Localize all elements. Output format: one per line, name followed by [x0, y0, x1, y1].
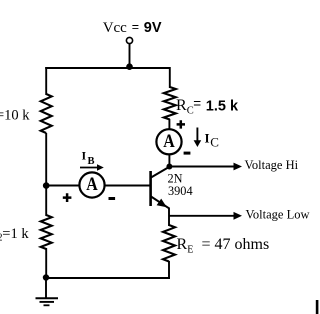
current arrow IB [80, 164, 104, 170]
svg-text:1.5 k: 1.5 k [206, 98, 239, 114]
wire ammeter A2 to RC [168, 119, 170, 130]
svg-text:A: A [86, 175, 98, 195]
ground [36, 298, 59, 305]
transistor Q1 2N3904 [151, 167, 170, 209]
wire emitter down [168, 208, 170, 227]
Vcc terminal circle [126, 37, 132, 43]
ammeter A2 (collector current) [156, 129, 181, 154]
svg-text:= 47 ohms: = 47 ohms [202, 236, 270, 253]
wire ammeter A1 to base [105, 185, 150, 187]
svg-text:9V: 9V [144, 20, 162, 36]
svg-text:R: R [176, 97, 187, 114]
svg-text:R: R [177, 236, 188, 253]
stray mark bottom right [316, 300, 319, 314]
wire RE to bottom rail [168, 261, 170, 278]
label Vcc = 9V [103, 20, 162, 36]
output Voltage Hi [169, 158, 298, 172]
svg-text:I: I [205, 131, 210, 146]
svg-text:=10 k: =10 k [0, 108, 30, 124]
label RC = 1.5 k [176, 96, 239, 117]
svg-text:Voltage Hi: Voltage Hi [245, 158, 299, 172]
node collector junction [166, 164, 172, 170]
node base divider junction [43, 182, 50, 189]
wire Vcc stub [129, 44, 131, 68]
svg-text:C: C [210, 134, 219, 149]
polarity minus A2 [184, 152, 191, 155]
polarity plus A2 [177, 120, 185, 128]
node ground junction [43, 274, 49, 280]
label RB2 = 1 k (clipped) [0, 226, 29, 244]
resistor RB1 [41, 94, 52, 133]
svg-text:=1 k: =1 k [2, 226, 29, 242]
svg-text:A: A [163, 132, 175, 152]
label 2N 3904 [168, 171, 193, 198]
svg-text:I: I [82, 149, 87, 163]
svg-text:=: = [193, 96, 201, 111]
svg-text:=: = [132, 20, 139, 34]
label RE = 47 ohms [177, 236, 270, 256]
wire left rail middle [45, 133, 47, 216]
svg-text:Vcc: Vcc [103, 20, 127, 36]
wire junction to ammeter A1 [46, 185, 79, 187]
wire left rail upper [45, 67, 47, 95]
svg-text:B: B [88, 156, 95, 167]
svg-text:E: E [187, 245, 193, 256]
svg-text:Voltage Low: Voltage Low [246, 208, 310, 222]
wire RC to top rail [169, 67, 171, 88]
label IB [82, 149, 95, 168]
current arrow IC [194, 128, 202, 148]
resistor RC [164, 87, 176, 120]
polarity plus A1 [63, 193, 72, 202]
node Vcc junction [126, 63, 133, 70]
resistor RB2 [41, 215, 52, 249]
ammeter A1 (base current) [79, 172, 104, 197]
polarity minus A1 [109, 197, 116, 200]
resistor RE [163, 225, 175, 262]
output Voltage Low [169, 208, 310, 222]
wire top rail [45, 67, 170, 69]
wire left rail lower [45, 248, 47, 278]
wire bottom rail [45, 277, 170, 279]
wire collector to ammeter A2 [168, 154, 170, 167]
wire ground stub [45, 278, 47, 298]
label IC [205, 131, 219, 150]
svg-text:3904: 3904 [168, 184, 193, 198]
